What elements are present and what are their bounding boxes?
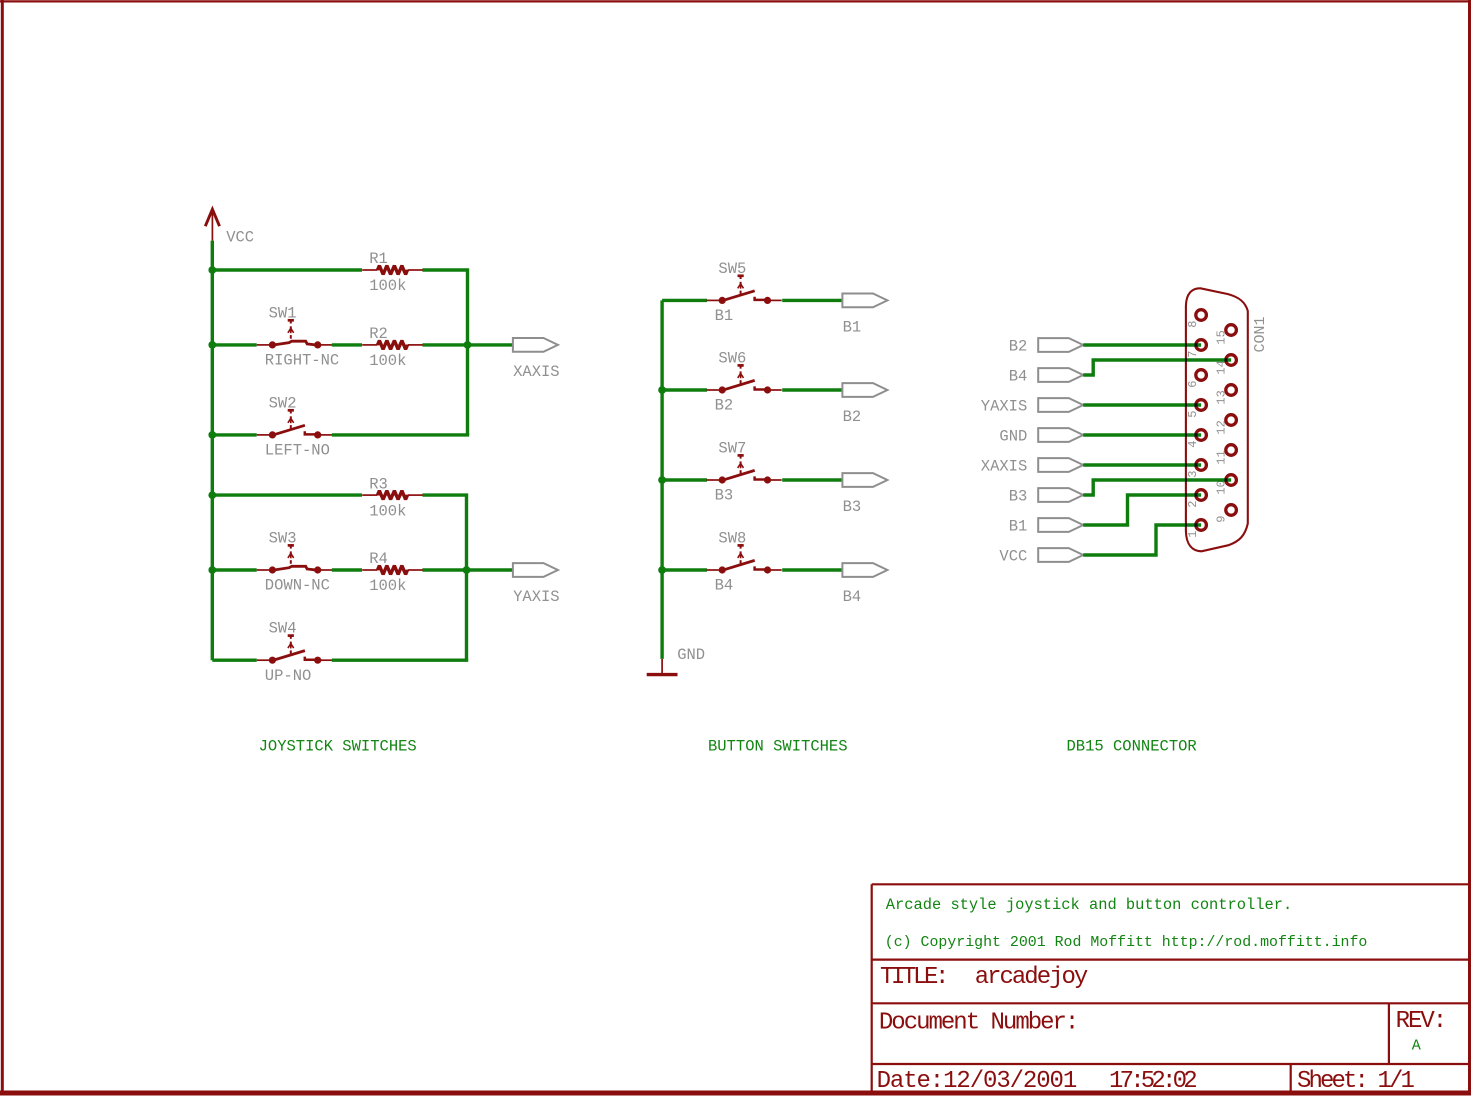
- wire VCC to SW2: [212, 433, 256, 436]
- resistor R3: [362, 475, 423, 520]
- wire GND to SW5: [662, 299, 707, 302]
- svg-text:Sheet: 1/1: Sheet: 1/1: [1297, 1068, 1415, 1095]
- svg-text:100k: 100k: [369, 502, 406, 520]
- node VCC/SW2 (junction): [208, 431, 216, 439]
- svg-text:100k: 100k: [369, 277, 406, 295]
- svg-text:R1: R1: [369, 250, 388, 268]
- switch SW5 (B1, NO): [707, 260, 782, 325]
- pin 10 of CON1: [1214, 475, 1236, 495]
- node VCC/R3 (junction): [208, 491, 216, 499]
- svg-text:YAXIS: YAXIS: [981, 397, 1028, 415]
- resistor R2: [362, 325, 423, 370]
- connector CON1 body (DB15 shell): [1186, 288, 1248, 551]
- net flag XAXIS: [981, 457, 1083, 475]
- wire R3 to YAXIS net vertical: [422, 495, 466, 660]
- node GND/SW8 (junction): [658, 566, 666, 574]
- svg-text:11: 11: [1214, 450, 1228, 464]
- svg-text:Arcade style joystick and butt: Arcade style joystick and button control…: [886, 896, 1292, 914]
- svg-text:LEFT-NO: LEFT-NO: [265, 442, 330, 460]
- wire GND to SW7: [662, 478, 707, 481]
- pin 11 of CON1: [1214, 445, 1236, 465]
- wire SW2 to XAXIS net: [332, 433, 469, 436]
- supply symbol VCC: [205, 209, 254, 246]
- pin 12 of CON1: [1214, 415, 1236, 435]
- wire VCC to pin 1: [1083, 525, 1201, 555]
- pin 9 of CON1: [1214, 505, 1236, 523]
- svg-text:B3: B3: [715, 487, 734, 505]
- net flag B1: [1009, 517, 1084, 535]
- net flag VCC: [999, 547, 1083, 565]
- svg-text:SW6: SW6: [718, 349, 746, 367]
- switch SW6 (B2, NO): [707, 349, 782, 414]
- svg-text:2: 2: [1186, 500, 1200, 507]
- net flag YAXIS: [981, 397, 1083, 415]
- svg-text:SW1: SW1: [269, 304, 297, 322]
- pin 5 of CON1: [1186, 400, 1206, 418]
- svg-text:R3: R3: [369, 475, 388, 493]
- svg-text:A: A: [1412, 1038, 1421, 1055]
- svg-text:B2: B2: [843, 408, 862, 426]
- svg-text:(c) Copyright 2001 Rod Moffitt: (c) Copyright 2001 Rod Moffitt http://ro…: [885, 935, 1368, 951]
- svg-text:DOWN-NC: DOWN-NC: [265, 577, 330, 595]
- svg-text:SW2: SW2: [269, 394, 297, 412]
- wire XAXIS to pin 3: [1083, 463, 1201, 466]
- svg-text:SW4: SW4: [269, 620, 297, 638]
- svg-text:DB15 CONNECTOR: DB15 CONNECTOR: [1067, 737, 1197, 755]
- svg-text:R4: R4: [369, 550, 388, 568]
- wire YAXIS to pin 5: [1083, 403, 1201, 406]
- svg-text:arcadejoy: arcadejoy: [975, 964, 1088, 991]
- wire VCC to R1: [212, 268, 362, 271]
- pin 8 of CON1: [1186, 310, 1206, 328]
- wire VCC bus vertical: [211, 241, 214, 661]
- wire SW7 to B3 flag: [782, 478, 842, 481]
- wire SW3 to R4: [332, 568, 362, 571]
- node GND/SW7 (junction): [658, 476, 666, 484]
- wire VCC to SW1: [212, 343, 256, 346]
- resistor R4: [362, 550, 423, 595]
- svg-text:B1: B1: [843, 319, 862, 337]
- svg-text:REV:: REV:: [1396, 1008, 1446, 1035]
- svg-text:14: 14: [1214, 360, 1228, 374]
- switch SW7 (B3, NO): [707, 439, 782, 504]
- net flag B3: [1009, 487, 1084, 505]
- wire GND bus vertical: [660, 300, 663, 659]
- svg-text:15: 15: [1214, 330, 1228, 344]
- svg-text:BUTTON SWITCHES: BUTTON SWITCHES: [708, 737, 848, 755]
- ground symbol GND: [647, 646, 705, 675]
- svg-text:B1: B1: [715, 307, 734, 325]
- wire B3 to pin 10: [1083, 480, 1231, 495]
- switch SW8 (B4, NO): [707, 529, 782, 594]
- svg-text:B3: B3: [843, 498, 862, 516]
- svg-text:12: 12: [1214, 420, 1228, 434]
- svg-text:17:52:02: 17:52:02: [1109, 1068, 1196, 1095]
- svg-text:R2: R2: [369, 325, 388, 343]
- wire SW6 to B2 flag: [782, 388, 842, 391]
- svg-text:3: 3: [1186, 470, 1200, 477]
- wire GND to pin 4: [1083, 433, 1201, 436]
- svg-text:SW3: SW3: [269, 529, 297, 547]
- wire VCC to SW4: [212, 659, 256, 662]
- svg-text:4: 4: [1186, 440, 1200, 447]
- svg-text:B2: B2: [715, 397, 734, 415]
- svg-text:B4: B4: [715, 577, 734, 595]
- svg-text:13: 13: [1214, 390, 1228, 404]
- svg-text:6: 6: [1186, 380, 1200, 387]
- svg-text:9: 9: [1214, 515, 1228, 522]
- svg-text:XAXIS: XAXIS: [981, 457, 1028, 475]
- pin 15 of CON1: [1214, 325, 1236, 345]
- svg-text:JOYSTICK SWITCHES: JOYSTICK SWITCHES: [259, 737, 417, 755]
- svg-text:B3: B3: [1009, 487, 1028, 505]
- node VCC/R1 (junction): [208, 266, 216, 274]
- svg-text:TITLE:: TITLE:: [880, 964, 946, 991]
- wire SW5 to B1 flag: [782, 299, 842, 302]
- node VCC/SW1 (junction): [208, 341, 216, 349]
- net flag YAXIS: [513, 563, 560, 606]
- pin 3 of CON1: [1186, 460, 1206, 478]
- wire GND to SW8: [662, 568, 707, 571]
- pin 1 of CON1: [1186, 520, 1206, 538]
- node YAXIS net (junction): [463, 566, 471, 574]
- net flag B2: [1009, 337, 1084, 355]
- svg-text:VCC: VCC: [999, 547, 1027, 565]
- svg-text:10: 10: [1214, 480, 1228, 494]
- node GND/SW6 (junction): [658, 386, 666, 394]
- svg-text:B2: B2: [1009, 337, 1028, 355]
- switch SW2 (LEFT-NO, NO): [257, 394, 332, 459]
- net flag B4: [842, 563, 887, 606]
- wire B1 to pin 2: [1083, 495, 1201, 525]
- wire GND to SW6: [662, 388, 707, 391]
- svg-text:Date:12/03/2001: Date:12/03/2001: [877, 1068, 1077, 1095]
- wire SW1 to R2: [332, 343, 362, 346]
- svg-text:1: 1: [1186, 530, 1200, 537]
- svg-text:GND: GND: [677, 646, 705, 664]
- pin 4 of CON1: [1186, 430, 1206, 448]
- node XAXIS net (junction): [464, 341, 472, 349]
- svg-text:YAXIS: YAXIS: [513, 588, 560, 606]
- node VCC/SW3 (junction): [208, 566, 216, 574]
- resistor R1: [362, 250, 423, 295]
- pin 6 of CON1: [1186, 370, 1206, 388]
- pin 14 of CON1: [1214, 355, 1236, 375]
- wire VCC to SW3: [212, 568, 256, 571]
- svg-text:B4: B4: [843, 588, 862, 606]
- svg-text:B4: B4: [1009, 367, 1028, 385]
- pin 13 of CON1: [1214, 385, 1236, 405]
- svg-text:Document Number:: Document Number:: [879, 1010, 1077, 1037]
- pin 2 of CON1: [1186, 490, 1206, 508]
- net flag B1: [842, 294, 887, 337]
- svg-text:100k: 100k: [369, 352, 406, 370]
- switch SW4 (UP-NO, NO): [257, 620, 332, 685]
- wire SW4 to YAXIS net: [332, 659, 468, 662]
- svg-text:RIGHT-NC: RIGHT-NC: [265, 352, 339, 370]
- net flag B2: [842, 383, 887, 426]
- svg-text:XAXIS: XAXIS: [513, 363, 560, 381]
- net flag B4: [1009, 367, 1084, 385]
- svg-text:CON1: CON1: [1252, 316, 1269, 352]
- wire R4 to YAXIS flag: [422, 568, 513, 571]
- title block frame: [872, 884, 1469, 1092]
- svg-text:GND: GND: [999, 427, 1027, 445]
- svg-text:UP-NO: UP-NO: [265, 667, 312, 685]
- svg-text:100k: 100k: [369, 577, 406, 595]
- switch SW1 (RIGHT-NC, NC): [257, 304, 340, 369]
- wire B2 to pin 7: [1083, 343, 1201, 346]
- net flag B3: [842, 473, 887, 516]
- net flag GND: [999, 427, 1083, 445]
- svg-text:SW5: SW5: [718, 260, 746, 278]
- svg-text:B1: B1: [1009, 517, 1028, 535]
- svg-text:5: 5: [1186, 410, 1200, 417]
- wire B4 to pin 14: [1083, 360, 1231, 375]
- wire SW8 to B4 flag: [782, 568, 842, 571]
- svg-text:SW7: SW7: [718, 439, 746, 457]
- wire R1 to XAXIS net vertical: [422, 270, 467, 435]
- pin 7 of CON1: [1186, 340, 1206, 358]
- svg-text:8: 8: [1186, 320, 1200, 327]
- svg-text:VCC: VCC: [226, 229, 254, 247]
- svg-text:SW8: SW8: [718, 529, 746, 547]
- svg-text:7: 7: [1186, 350, 1200, 357]
- switch SW3 (DOWN-NC, NC): [257, 529, 332, 594]
- net flag XAXIS: [513, 338, 560, 381]
- wire R2 to XAXIS flag: [422, 343, 513, 346]
- wire VCC to R3: [212, 493, 362, 496]
